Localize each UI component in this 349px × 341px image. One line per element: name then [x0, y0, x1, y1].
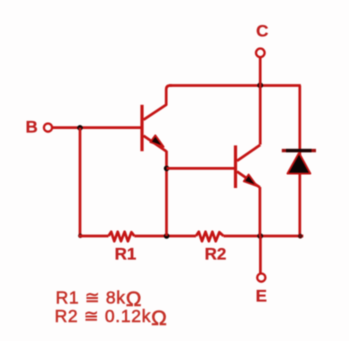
- svg-text:R2: R2: [205, 245, 227, 264]
- wire bottom rail right segment: [224, 235, 304, 238]
- transistor Q1 emitter arrowhead: [150, 135, 163, 147]
- resistor R2 zigzag: [196, 232, 224, 241]
- wire base lead from B to Q1 base: [53, 126, 141, 129]
- diode D1 cathode bar: [282, 149, 316, 152]
- junction dot emitter node: [257, 233, 263, 239]
- diode D1 triangle (anode, pointing up): [287, 153, 310, 174]
- junction dot Q1 emitter / Q2 base node: [164, 166, 170, 172]
- wire from node to Q2 base: [167, 167, 235, 170]
- transistor Q1 emitter stroke: [144, 136, 167, 152]
- svg-text:R1: R1: [115, 245, 137, 264]
- diode D1 cathode bar dark core: [286, 149, 312, 152]
- svg-text:C: C: [256, 21, 268, 40]
- transistor Q1 collector stroke up to top rail: [144, 86, 173, 120]
- wire bottom rail left segment: [79, 235, 109, 238]
- wire E terminal drop: [259, 236, 262, 274]
- svg-text:R2 ≅ 0.12kΩ: R2 ≅ 0.12kΩ: [55, 306, 168, 330]
- wire left vertical from base junction down: [79, 128, 82, 236]
- junction dot collector node: [257, 82, 263, 88]
- svg-text:E: E: [256, 287, 267, 306]
- junction dot R1-R2 (Q1 emitter tie): [164, 233, 170, 239]
- wire Q2 emitter vertical down to emitter node: [259, 187, 262, 236]
- wire C lead down to rail and Q2 collector: [259, 57, 262, 144]
- wire right branch vertical (diode branch): [298, 86, 301, 237]
- terminal E open circle: [257, 274, 265, 282]
- terminal C open circle: [256, 49, 265, 58]
- wire top rail: [169, 84, 301, 87]
- wire bottom rail middle segment: [134, 235, 196, 238]
- transistor Q2 base bar: [234, 145, 237, 188]
- terminal B open circle: [44, 124, 52, 132]
- junction dot on base lead: [77, 125, 83, 131]
- transistor Q2 collector stroke: [237, 145, 260, 161]
- transistor Q1 base bar: [140, 105, 143, 151]
- resistor R1 zigzag: [109, 232, 135, 241]
- corner blob bottom-right: [298, 234, 303, 239]
- corner blob bottom-left: [78, 234, 82, 238]
- transistor Q2 emitter stroke: [237, 172, 260, 188]
- transistor Q2 emitter arrowhead: [244, 175, 257, 187]
- wire Q1 emitter vertical down to bottom rail: [165, 151, 168, 236]
- svg-text:B: B: [26, 117, 38, 136]
